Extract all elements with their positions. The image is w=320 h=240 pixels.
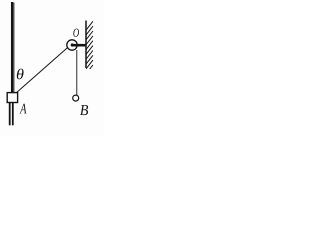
rod (vertical pole, double line, upper part) [12, 2, 14, 97]
rod lower part (below block A) [10, 102, 13, 125]
rope from block A to pulley O [17, 48, 68, 93]
string from pulley to ball B [76, 50, 78, 95]
pulley bracket to wall [72, 44, 86, 47]
block A [7, 93, 17, 103]
label O [73, 29, 79, 37]
background [0, 0, 104, 136]
label A [20, 104, 27, 114]
label B [80, 105, 88, 115]
pulley axle dot [71, 43, 74, 46]
wall (vertical line) [85, 21, 87, 69]
wall hatching [86, 21, 93, 73]
ball B [73, 95, 79, 101]
angle label theta [17, 69, 24, 80]
pulley O [67, 40, 77, 50]
